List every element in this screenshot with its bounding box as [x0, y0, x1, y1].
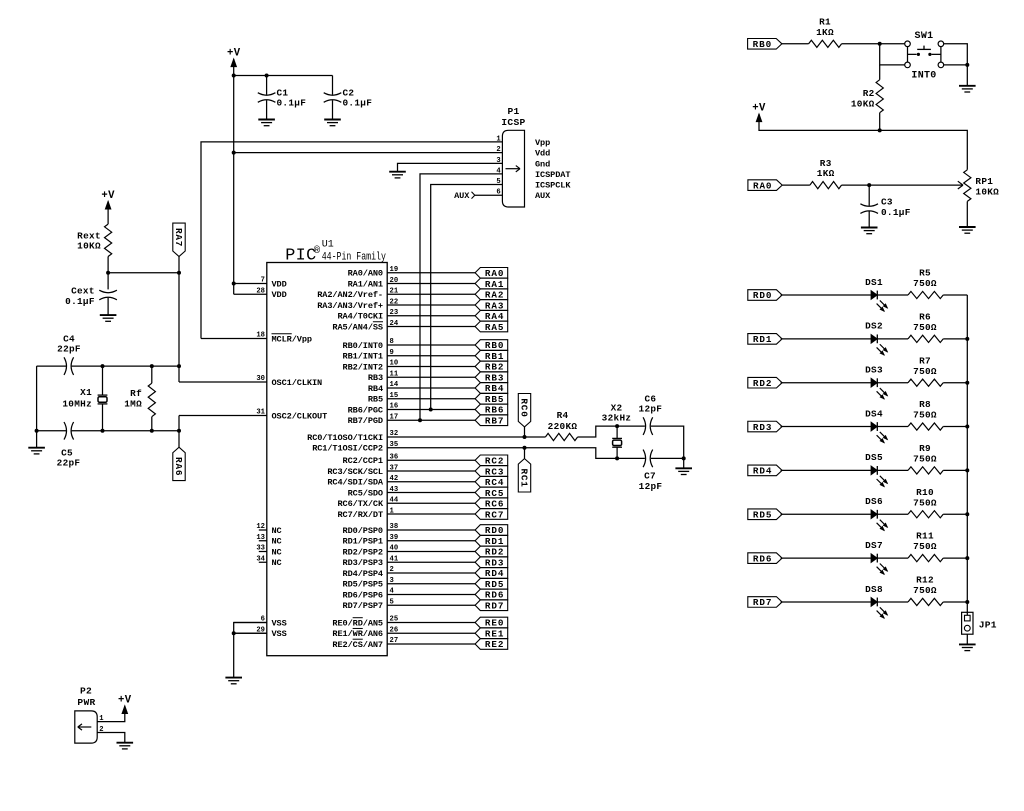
- svg-text:RC5: RC5: [485, 488, 504, 499]
- resistor R6 750ohm: [908, 311, 943, 342]
- P2 pin 2 number: [99, 726, 103, 734]
- power +V symbol at P2: [118, 694, 132, 713]
- U1 pin 42 RC4/SDI/SDA with net flag RC4: [327, 475, 507, 488]
- wire R1 to SW1: [842, 43, 905, 45]
- net tag RD4 (LED row): [748, 465, 782, 477]
- svg-text:RA0/AN0: RA0/AN0: [348, 269, 383, 279]
- wire P1 pin2 Vdd to +V rail: [234, 152, 503, 154]
- svg-text:VSS: VSS: [272, 629, 287, 639]
- svg-text:RC7: RC7: [485, 509, 504, 520]
- U1 pin 23 RA4/T0CKI with net flag RA4: [337, 309, 507, 322]
- svg-text:RC1: RC1: [518, 468, 529, 487]
- wire C6 to right vertical: [651, 426, 684, 458]
- capacitor C5 22pF: [57, 422, 81, 469]
- U1 pin 5 RD7/PSP7 with net flag RD7: [343, 598, 508, 611]
- svg-text:RD6: RD6: [485, 590, 504, 601]
- svg-text:Cext: Cext: [71, 285, 95, 296]
- svg-text:RA1/AN1: RA1/AN1: [348, 279, 383, 289]
- U1 pin 31 OSC2/CLKOUT: [179, 409, 327, 422]
- svg-text:RD0: RD0: [485, 525, 504, 536]
- svg-text:1KΩ: 1KΩ: [817, 168, 835, 179]
- wire DS3 to R7: [877, 382, 908, 384]
- U1 pin 29 VSS: [234, 626, 287, 639]
- junction RC1 tag: [523, 446, 527, 450]
- svg-text:RA4: RA4: [485, 311, 504, 322]
- junction X2 top: [615, 424, 619, 428]
- U1 pin 44 RC6/TX/CK with net flag RC6: [337, 497, 507, 510]
- junction LED bus row 2: [965, 337, 969, 341]
- svg-text:12pF: 12pF: [639, 404, 663, 415]
- svg-text:RE2: RE2: [485, 639, 504, 650]
- U1 NC pin 33: [256, 545, 281, 558]
- ground below RP1: [959, 227, 976, 233]
- U1 pin 28 VDD: [234, 287, 287, 300]
- svg-text:Rf: Rf: [130, 388, 142, 399]
- U1 pin 7 VDD: [234, 277, 287, 290]
- svg-text:R10: R10: [916, 487, 934, 498]
- U1 pin 38 RD0/PSP0 with net flag RD0: [343, 523, 508, 536]
- U1 NC pin 12: [256, 523, 281, 536]
- crystal X1 10MHz: [62, 366, 107, 431]
- wire DS7 to R11: [877, 557, 908, 559]
- svg-text:P1: P1: [507, 106, 519, 117]
- junction LED bus row 4: [965, 425, 969, 429]
- ground below SW1: [959, 86, 976, 92]
- U1 pin 39 RD1/PSP1 with net flag RD1: [343, 534, 508, 547]
- svg-text:INT0: INT0: [911, 70, 936, 81]
- svg-text:750Ω: 750Ω: [913, 410, 937, 421]
- wire +V horizontal rail to C1 C2: [234, 75, 333, 77]
- LED DS2: [865, 321, 887, 355]
- svg-text:PIC: PIC: [285, 247, 316, 266]
- svg-text:750Ω: 750Ω: [913, 322, 937, 333]
- resistor R9 750ohm: [908, 443, 943, 474]
- svg-text:RD4/PSP4: RD4/PSP4: [343, 569, 383, 579]
- svg-text:DS8: DS8: [865, 584, 883, 595]
- svg-text:RA7: RA7: [173, 228, 184, 247]
- svg-text:RD6/PSP6: RD6/PSP6: [343, 590, 383, 600]
- P1 pin 3 Gnd label: [496, 157, 550, 170]
- P1 pin 1 Vpp label: [496, 135, 550, 148]
- svg-text:220KΩ: 220KΩ: [548, 421, 578, 432]
- wire R11 to bus: [943, 557, 967, 559]
- U1 pin 6 VSS: [234, 616, 287, 629]
- wire SW1 lower pole to R2: [879, 65, 881, 80]
- svg-text:750Ω: 750Ω: [913, 585, 937, 596]
- svg-text:C3: C3: [881, 196, 893, 207]
- P1 pin 6 AUX label: [496, 189, 551, 202]
- U1 pin 16 RB6/PGC with net flag RB6: [348, 403, 508, 416]
- svg-text:RD4: RD4: [753, 466, 772, 477]
- U1 pin 27 RE2/CS/AN7 with net flag RE2: [332, 637, 507, 650]
- junction C3 node: [867, 183, 871, 187]
- crystal X2 32kHz: [602, 402, 632, 458]
- svg-text:RD0: RD0: [753, 290, 772, 301]
- svg-text:+V: +V: [752, 102, 766, 114]
- LED DS5: [865, 452, 887, 486]
- wire P2 pin1 to +V: [97, 706, 125, 722]
- svg-text:RA5: RA5: [485, 322, 504, 333]
- svg-text:RB6/PGC: RB6/PGC: [348, 405, 383, 415]
- power +V symbol (top, VDD rail): [227, 47, 241, 66]
- net tag RD3 (LED row): [748, 421, 782, 433]
- wire LED common bus vertical: [966, 295, 968, 612]
- svg-text:RB4: RB4: [368, 384, 383, 394]
- wire R2 bottom to +V rail: [879, 113, 881, 131]
- svg-text:RB1/INT1: RB1/INT1: [343, 352, 383, 362]
- svg-text:RC4/SDI/SDA: RC4/SDI/SDA: [327, 478, 384, 488]
- svg-text:RB6: RB6: [485, 405, 504, 416]
- wire RD4 to DS5: [781, 469, 872, 471]
- capacitor C6 12pF: [639, 393, 663, 435]
- wire RD5 to DS6: [781, 513, 872, 515]
- wire P1 pin5 ICSPCLK to RB6: [431, 185, 503, 410]
- svg-text:AUX: AUX: [535, 191, 551, 201]
- net tag RD5 (LED row): [748, 509, 782, 521]
- svg-text:750Ω: 750Ω: [913, 278, 937, 289]
- svg-text:R12: R12: [916, 575, 934, 586]
- svg-text:RD2: RD2: [753, 378, 772, 389]
- svg-text:DS5: DS5: [865, 452, 883, 463]
- svg-text:DS7: DS7: [865, 540, 883, 551]
- svg-text:R6: R6: [919, 311, 931, 322]
- U1 pin 43 RC5/SDO with net flag RC5: [348, 486, 508, 499]
- svg-text:RB4: RB4: [485, 383, 504, 394]
- junction +V rail at C1: [265, 74, 269, 78]
- svg-text:10MHz: 10MHz: [62, 399, 92, 410]
- wire RC0 line from U1: [387, 436, 545, 438]
- net tag RA6 (vertical): [173, 447, 185, 480]
- junction LED bus row 3: [965, 381, 969, 385]
- junction X1 top: [101, 364, 105, 368]
- wire to ground X2: [683, 458, 685, 468]
- wire R12 to bus: [943, 601, 967, 603]
- wire RD1 to DS2: [781, 338, 872, 340]
- svg-text:VDD: VDD: [272, 279, 287, 289]
- svg-text:RB7/PGD: RB7/PGD: [348, 416, 383, 426]
- svg-text:+V: +V: [101, 190, 115, 202]
- wire R6 to bus: [943, 338, 967, 340]
- svg-text:RB2: RB2: [485, 362, 504, 373]
- junction X1 bottom: [101, 429, 105, 433]
- switch SW1 pushbutton INT0: [905, 31, 944, 81]
- svg-text:1MΩ: 1MΩ: [124, 399, 142, 410]
- wire JP1 to ground: [966, 612, 968, 644]
- svg-text:DS4: DS4: [865, 408, 883, 419]
- svg-text:10KΩ: 10KΩ: [851, 98, 875, 109]
- svg-text:NC: NC: [272, 537, 282, 547]
- resistor R1 1Kohm: [809, 17, 842, 48]
- svg-text:RD3: RD3: [485, 557, 504, 568]
- wire Rext to Cext junction: [107, 257, 109, 290]
- svg-text:RB1: RB1: [485, 351, 504, 362]
- wire to ground left of crystal: [36, 431, 38, 448]
- svg-text:NC: NC: [272, 526, 282, 536]
- wire RD2 to DS3: [781, 382, 872, 384]
- wire DS1 to R5: [877, 294, 908, 296]
- svg-text:RE0: RE0: [485, 618, 504, 629]
- wire DS6 to R10: [877, 513, 908, 515]
- junction at RA7 column: [177, 271, 181, 275]
- svg-text:RC5/SDO: RC5/SDO: [348, 488, 383, 498]
- junction LED bus row 5: [965, 468, 969, 472]
- svg-text:OSC1/CLKIN: OSC1/CLKIN: [272, 378, 323, 388]
- svg-text:RD5/PSP5: RD5/PSP5: [343, 580, 383, 590]
- junction X2 bottom: [615, 456, 619, 460]
- U1 pin 2 RD4/PSP4 with net flag RD4: [343, 566, 508, 579]
- wire C7 to right vertical: [651, 457, 684, 459]
- U1 pin 21 RA2/AN2/Vref- with net flag RA2: [317, 288, 507, 301]
- svg-text:ICSPDAT: ICSPDAT: [535, 170, 570, 180]
- U1 pin 11 RB3 with net flag RB3: [368, 370, 508, 383]
- svg-text:ICSPCLK: ICSPCLK: [535, 181, 571, 191]
- svg-text:RD2: RD2: [485, 547, 504, 558]
- svg-text:RB7: RB7: [485, 415, 504, 426]
- svg-text:750Ω: 750Ω: [913, 454, 937, 465]
- svg-text:JP1: JP1: [979, 619, 997, 630]
- svg-text:RD7: RD7: [485, 600, 504, 611]
- svg-text:RD1/PSP1: RD1/PSP1: [343, 537, 383, 547]
- wire RD6 to DS7: [781, 557, 872, 559]
- capacitor C1 0.1uF: [258, 76, 306, 120]
- svg-text:RA2/AN2/Vref-: RA2/AN2/Vref-: [317, 290, 383, 300]
- U1 pin 25 RE0/RD/AN5 with net flag RE0: [332, 616, 507, 629]
- wire P1 pin4 ICSPDAT to RB7: [420, 174, 502, 420]
- svg-text:RB0: RB0: [485, 340, 504, 351]
- svg-text:1KΩ: 1KΩ: [816, 27, 834, 38]
- svg-text:750Ω: 750Ω: [913, 366, 937, 377]
- junction +V rail start: [232, 74, 236, 78]
- P2 pin 1 number: [99, 715, 104, 723]
- U1 pin 41 RD3/PSP3 with net flag RD3: [343, 555, 508, 568]
- capacitor C2 0.1uF: [324, 76, 373, 120]
- U1 NC pin 13: [256, 534, 281, 547]
- svg-text:RC0: RC0: [518, 398, 529, 417]
- potentiometer RP1 10Kohm: [964, 170, 999, 202]
- IC U1 title labels: [285, 240, 386, 266]
- wire R7 to bus: [943, 382, 967, 384]
- ground below C3: [861, 228, 878, 234]
- svg-text:RP1: RP1: [975, 176, 993, 187]
- svg-text:DS2: DS2: [865, 321, 883, 332]
- wire RB0 to R1: [782, 43, 809, 45]
- U1 pin 35 RC1/T1OSI/CCP2: [312, 441, 398, 454]
- junction ICSPDAT at RB7: [418, 418, 422, 422]
- junction X2 ground node: [682, 456, 686, 460]
- wire DS2 to R6: [877, 338, 908, 340]
- svg-text:RD3: RD3: [753, 422, 772, 433]
- junction RC0 tag: [523, 435, 527, 439]
- resistor R5 750ohm: [908, 268, 943, 299]
- svg-text:RD1: RD1: [753, 334, 772, 345]
- resistor Rf 1Mohm: [124, 366, 155, 431]
- svg-text:44-Pin Family: 44-Pin Family: [322, 252, 386, 264]
- wire crystal top rail: [37, 365, 179, 367]
- wire SW1 right side to ground: [944, 44, 967, 86]
- wire P1 pin1 Vpp to MCLR: [201, 142, 502, 339]
- svg-text:RA6: RA6: [173, 457, 184, 476]
- U1 pin 37 RC3/SCK/SCL with net flag RC3: [327, 464, 507, 477]
- svg-text:Vdd: Vdd: [535, 149, 550, 159]
- net tag RA7 (vertical): [173, 223, 185, 256]
- resistor R7 750ohm: [908, 355, 943, 386]
- LED DS4: [865, 408, 887, 442]
- resistor R11 750ohm: [908, 531, 943, 562]
- svg-text:10KΩ: 10KΩ: [975, 186, 999, 197]
- wire RA7 tag to OSC1: [178, 257, 180, 383]
- U1 pin 3 RD5/PSP5 with net flag RD5: [343, 577, 508, 590]
- svg-text:RC4: RC4: [485, 477, 504, 488]
- U1 pin 15 RB5 with net flag RB5: [368, 392, 508, 405]
- U1 pin 14 RB4 with net flag RB4: [368, 381, 508, 394]
- junction Rf top: [150, 364, 154, 368]
- wire R9 to bus: [943, 469, 967, 471]
- svg-text:RA1: RA1: [485, 279, 504, 290]
- capacitor Cext 0.1uF: [65, 285, 117, 315]
- resistor R8 750ohm: [908, 399, 943, 430]
- resistor R4 220Kohm: [545, 410, 577, 441]
- svg-text:RC1/T1OSI/CCP2: RC1/T1OSI/CCP2: [312, 444, 383, 454]
- LED DS8: [865, 584, 887, 618]
- U1 pin 17 RB7/PGD with net flag RB7: [348, 413, 508, 426]
- net tag RD2 (LED row): [748, 377, 782, 389]
- junction Vdd wire at +V vertical: [232, 151, 236, 155]
- svg-text:RA4/T0CKI: RA4/T0CKI: [337, 312, 383, 322]
- U1 pin 4 RD6/PSP6 with net flag RD6: [343, 588, 508, 601]
- U1 pin 20 RA1/AN1 with net flag RA1: [348, 277, 508, 290]
- junction ICSPCLK at RB6: [429, 408, 433, 412]
- svg-text:RE1: RE1: [485, 628, 504, 639]
- svg-text:RD5: RD5: [753, 509, 772, 520]
- U1 pin 10 RB2/INT2 with net flag RB2: [343, 360, 508, 373]
- svg-text:®: ®: [314, 245, 321, 257]
- svg-text:RB5: RB5: [485, 394, 504, 405]
- U1 pin 19 RA0/AN0 with net flag RA0: [348, 266, 508, 279]
- connector P2 PWR: [75, 686, 97, 744]
- svg-text:R8: R8: [919, 399, 931, 410]
- svg-text:RD7: RD7: [753, 597, 772, 608]
- wire VSS pins to ground: [234, 623, 267, 678]
- P1 pin 2 Vdd label: [496, 146, 550, 159]
- junction bottom rail at RA6 column: [177, 429, 181, 433]
- connector P1 ICSP header: [501, 106, 525, 207]
- wire junction to RA7 column: [108, 272, 179, 274]
- net tag RA0: [748, 180, 782, 192]
- P1 pin 5 ICSPCLK label: [496, 178, 571, 191]
- svg-text:RB3: RB3: [485, 372, 504, 383]
- svg-text:0.1µF: 0.1µF: [881, 207, 911, 218]
- ground below C2: [324, 120, 341, 126]
- capacitor C3 0.1uF: [860, 185, 910, 227]
- wire +V vertical to VDD pins: [233, 59, 235, 294]
- svg-text:0.1µF: 0.1µF: [277, 97, 307, 108]
- ground at P1 pin3: [389, 172, 406, 178]
- svg-text:+V: +V: [227, 47, 241, 59]
- svg-text:U1: U1: [322, 240, 334, 251]
- U1 pin 40 RD2/PSP2 with net flag RD2: [343, 545, 508, 558]
- svg-text:RA3/AN3/Vref+: RA3/AN3/Vref+: [317, 301, 383, 311]
- U1 pin 32 RC0/T1OSO/T1CKI: [307, 430, 398, 443]
- svg-text:RC0/T1OSO/T1CKI: RC0/T1OSO/T1CKI: [307, 433, 383, 443]
- resistor R10 750ohm: [908, 487, 943, 518]
- wire left vertical of crystal loop: [36, 366, 38, 431]
- IC U1 PIC 44-Pin Family body: [267, 263, 387, 656]
- svg-text:RD0/PSP0: RD0/PSP0: [343, 526, 383, 536]
- svg-text:RA0: RA0: [485, 268, 504, 279]
- junction R1-SW1-R2 node: [878, 42, 882, 46]
- U1 pin 36 RC2/CCP1 with net flag RC2: [343, 454, 508, 467]
- P1 pin 4 ICSPDAT label: [496, 167, 570, 180]
- svg-text:ICSP: ICSP: [501, 117, 525, 128]
- wire RD3 to DS4: [781, 426, 872, 428]
- wire R8 to bus: [943, 426, 967, 428]
- svg-text:RB0/INT0: RB0/INT0: [343, 341, 383, 351]
- wire RC1 line from U1 to X2 bottom rail: [387, 448, 645, 459]
- net tag RD1 (LED row): [748, 334, 782, 346]
- svg-text:NC: NC: [272, 547, 282, 557]
- svg-text:750Ω: 750Ω: [913, 497, 937, 508]
- svg-text:Gnd: Gnd: [535, 159, 550, 169]
- svg-text:RA3: RA3: [485, 300, 504, 311]
- svg-text:RD5: RD5: [485, 579, 504, 590]
- svg-text:RD3/PSP3: RD3/PSP3: [343, 558, 383, 568]
- junction VSS29: [232, 631, 236, 635]
- svg-text:SW1: SW1: [915, 31, 934, 42]
- ground below JP1: [959, 644, 976, 650]
- net tag RD6 (LED row): [748, 553, 782, 565]
- svg-text:RC2: RC2: [485, 456, 504, 467]
- wire junction down to lower switch pole: [880, 44, 905, 65]
- svg-text:MCLR/Vpp: MCLR/Vpp: [272, 334, 312, 344]
- svg-text:RD1: RD1: [485, 536, 504, 547]
- svg-text:R7: R7: [919, 355, 931, 366]
- wire OSC2 to bottom rail: [178, 416, 180, 448]
- wire crystal bottom rail: [37, 430, 179, 432]
- junction R2 at +V rail: [878, 128, 882, 132]
- svg-text:RD2/PSP2: RD2/PSP2: [343, 547, 383, 557]
- svg-text:RC6: RC6: [485, 499, 504, 510]
- U1 pin 8 RB0/INT0 with net flag RB0: [343, 338, 508, 351]
- svg-text:RC2/CCP1: RC2/CCP1: [343, 456, 383, 466]
- LED DS3: [865, 365, 887, 399]
- LED DS7: [865, 540, 887, 574]
- svg-text:PWR: PWR: [77, 697, 95, 708]
- svg-text:Vpp: Vpp: [535, 138, 550, 148]
- svg-text:22pF: 22pF: [57, 458, 81, 469]
- svg-text:RE0/RD/AN5: RE0/RD/AN5: [332, 618, 383, 628]
- wire +V rail to RP1: [759, 114, 967, 170]
- resistor R12 750ohm: [908, 575, 943, 606]
- svg-text:R9: R9: [919, 443, 931, 454]
- wire R10 to bus: [943, 513, 967, 515]
- svg-text:DS3: DS3: [865, 365, 883, 376]
- svg-text:RD6: RD6: [753, 553, 772, 564]
- svg-text:R11: R11: [916, 531, 934, 542]
- svg-text:AUX: AUX: [454, 191, 470, 201]
- U1 pin 1 RC7/RX/DT with net flag RC7: [337, 507, 507, 520]
- svg-text:RA0: RA0: [753, 180, 772, 191]
- LED DS1: [865, 277, 887, 311]
- svg-text:C6: C6: [644, 393, 656, 404]
- svg-text:RC3/SCK/SCL: RC3/SCK/SCL: [327, 467, 383, 477]
- wire P2 pin2 to ground: [97, 733, 125, 743]
- junction bottom rail left: [35, 429, 39, 433]
- svg-text:10KΩ: 10KΩ: [77, 241, 101, 252]
- U1 pin 18 MCLR/Vpp: [201, 332, 312, 345]
- net tag RC1 (vertical): [518, 448, 530, 492]
- svg-text:RA5/AN4/SS: RA5/AN4/SS: [332, 322, 383, 332]
- svg-text:750Ω: 750Ω: [913, 541, 937, 552]
